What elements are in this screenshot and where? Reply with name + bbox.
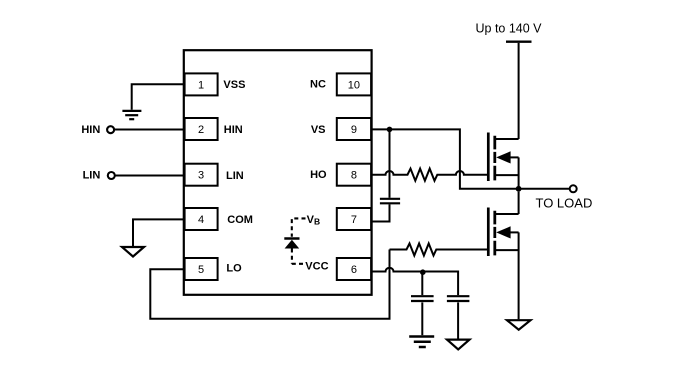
pin 9 [337, 118, 371, 140]
svg-text:HIN: HIN [81, 124, 100, 136]
IC U1 gate-driver body [184, 50, 372, 295]
wire COM to ground [133, 219, 184, 246]
svg-text:NC: NC [310, 79, 326, 91]
diode D1 anode dashed link [292, 249, 304, 264]
node TO LOAD terminal [570, 185, 577, 192]
wire Q2 drain to load node [518, 192, 520, 214]
ground triangle COM [122, 247, 144, 257]
svg-text:2: 2 [198, 124, 204, 136]
svg-text:5: 5 [198, 264, 204, 276]
svg-text:TO LOAD: TO LOAD [536, 196, 593, 211]
transistor Q2 low-side MOSFET [488, 208, 518, 320]
wire C3 to pin 7 [372, 204, 390, 221]
resistor R2 [390, 244, 489, 256]
pin 4 [185, 208, 218, 230]
svg-text:VSS: VSS [223, 79, 245, 91]
node TO LOAD junction [516, 186, 522, 192]
wire C1 to ground [421, 302, 423, 335]
svg-text:HO: HO [310, 169, 327, 181]
pin 6 [337, 258, 371, 280]
wire Q1 drain to supply [518, 43, 520, 139]
svg-text:7: 7 [351, 214, 357, 226]
pin 7 [337, 208, 371, 230]
node HIN terminal [107, 126, 114, 133]
node VS junction [387, 127, 393, 133]
ground triangle Q2 source [507, 320, 531, 330]
svg-text:VB: VB [307, 214, 320, 227]
svg-text:4: 4 [198, 214, 204, 226]
svg-text:LIN: LIN [83, 170, 101, 182]
svg-text:6: 6 [351, 264, 357, 276]
transistor Q1 high-side MOSFET [488, 133, 518, 189]
svg-text:9: 9 [351, 124, 357, 136]
node LIN terminal [108, 172, 115, 179]
capacitor C2 [447, 296, 470, 301]
wire junction to C1 [421, 272, 423, 296]
ground earth C1 [409, 337, 434, 348]
wire VSS to ground [132, 84, 184, 110]
svg-text:LIN: LIN [226, 170, 244, 182]
wire VS junction to C3 [389, 129, 391, 197]
svg-text:10: 10 [348, 80, 360, 92]
wire LIN to pin 3 [115, 175, 184, 177]
svg-text:VCC: VCC [305, 261, 328, 273]
diode D1 bootstrap dashed link [292, 218, 306, 236]
pin 1 [185, 73, 218, 95]
wire VCC from pin 6 with hop [372, 268, 458, 295]
capacitor C3 [380, 199, 400, 204]
svg-text:VS: VS [311, 124, 326, 136]
wire LO loop [150, 250, 389, 319]
wire to load terminal [521, 188, 570, 190]
node junction VCC caps [420, 269, 426, 275]
power rail Up to 140 V [506, 41, 532, 43]
diode D1 cathode bar [284, 237, 299, 240]
svg-text:3: 3 [198, 170, 204, 182]
svg-text:8: 8 [351, 170, 357, 182]
diode D1 triangle [285, 240, 300, 249]
wire C2 to ground [457, 302, 459, 338]
pin 5 [185, 258, 218, 280]
wire VS from pin 9 to load node [372, 129, 516, 188]
wire HIN to pin 2 [114, 129, 184, 131]
wire HO through R1 with hops [372, 169, 488, 181]
pin 2 [185, 118, 218, 140]
pin 3 [185, 164, 218, 186]
pin 8 [337, 164, 371, 186]
svg-text:COM: COM [227, 214, 253, 226]
svg-text:Up to 140 V: Up to 140 V [476, 21, 543, 35]
capacitor C1 [411, 296, 434, 301]
ground triangle C2 [447, 340, 470, 350]
svg-text:1: 1 [198, 80, 204, 92]
pin 10 [337, 73, 371, 95]
ground earth VSS [122, 111, 141, 119]
svg-text:LO: LO [226, 263, 242, 275]
svg-text:HIN: HIN [224, 124, 243, 136]
